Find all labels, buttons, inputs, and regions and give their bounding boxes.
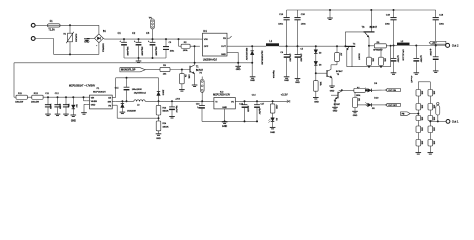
svg-text:10k: 10k <box>358 98 360 101</box>
svg-text:1N4148H: 1N4148H <box>127 111 136 113</box>
svg-text:56k/1%: 56k/1% <box>163 111 169 113</box>
svg-text:FB: FB <box>402 114 405 116</box>
svg-text:100µ/400V: 100µ/400V <box>140 47 142 57</box>
svg-text:10µH/250mA: 10µH/250mA <box>134 91 147 94</box>
svg-text:GND: GND <box>284 80 289 82</box>
svg-text:IC1: IC1 <box>203 30 207 33</box>
svg-text:10k0,5W: 10k0,5W <box>31 101 39 103</box>
svg-text:4µ7/50V: 4µ7/50V <box>419 55 421 63</box>
svg-text:SW: SW <box>108 101 111 103</box>
svg-text:ZD8V2: ZD8V2 <box>162 90 164 96</box>
svg-text:100n/100V: 100n/100V <box>132 89 143 91</box>
svg-text:+3.3V: +3.3V <box>281 92 288 96</box>
svg-text:LM2596-ADJ: LM2596-ADJ <box>203 58 218 61</box>
svg-text:4µ7/50V: 4µ7/50V <box>429 49 431 57</box>
svg-text:GND: GND <box>156 138 161 140</box>
svg-text:100k: 100k <box>421 91 423 95</box>
svg-text:33µH/5A: 33µH/5A <box>272 70 275 78</box>
svg-text:OUT-OFF: OUT-OFF <box>388 105 398 107</box>
svg-text:GND: GND <box>84 41 89 43</box>
svg-text:GND: GND <box>330 91 335 93</box>
svg-text:GND: GND <box>222 107 227 109</box>
svg-text:100k: 100k <box>356 95 360 97</box>
svg-text:100k: 100k <box>319 82 321 86</box>
svg-text:BC807: BC807 <box>357 54 359 61</box>
svg-text:MCP17030-3.3V: MCP17030-3.3V <box>213 95 230 97</box>
svg-text:4µ7/50V: 4µ7/50V <box>397 55 399 63</box>
svg-text:D3: D3 <box>319 64 321 66</box>
svg-text:F2: F2 <box>200 73 202 75</box>
svg-text:OFF: OFF <box>204 46 209 48</box>
svg-text:BC847: BC847 <box>370 26 378 29</box>
svg-text:GND: GND <box>236 69 241 71</box>
svg-text:Out 2: Out 2 <box>452 44 459 48</box>
svg-text:100k: 100k <box>187 74 189 78</box>
svg-text:100k: 100k <box>421 117 423 121</box>
svg-text:100n: 100n <box>385 24 391 26</box>
svg-text:S10K300: S10K300 <box>74 34 76 43</box>
svg-text:OUT-ON: OUT-ON <box>388 90 396 92</box>
svg-text:100k: 100k <box>433 127 435 131</box>
svg-text:10µ/16V: 10µ/16V <box>175 106 177 114</box>
svg-text:470µ/35V: 470µ/35V <box>289 54 291 63</box>
svg-text:100k: 100k <box>433 117 435 121</box>
svg-text:470µ/35V: 470µ/35V <box>300 54 302 63</box>
svg-text:1µ/50V: 1µ/50V <box>59 104 61 110</box>
svg-text:TP1: TP1 <box>149 17 152 19</box>
svg-text:BC847: BC847 <box>334 104 341 106</box>
svg-text:470R: 470R <box>275 105 277 110</box>
svg-text:100n: 100n <box>301 24 307 26</box>
svg-text:VIN: VIN <box>204 39 208 41</box>
svg-text:10µ/25V: 10µ/25V <box>247 106 249 113</box>
svg-text:GND: GND <box>222 126 227 128</box>
svg-text:GND: GND <box>295 82 300 84</box>
svg-text:4k7: 4k7 <box>340 53 342 56</box>
svg-text:GND: GND <box>270 132 275 134</box>
svg-text:100k: 100k <box>421 141 423 145</box>
svg-text:SB5100/100V: SB5100/100V <box>245 48 247 61</box>
svg-text:GND: GND <box>221 54 226 56</box>
svg-text:Out 1: Out 1 <box>452 120 459 124</box>
svg-text:D2: D2 <box>319 53 321 55</box>
svg-text:100n: 100n <box>439 24 445 26</box>
svg-text:GND: GND <box>71 120 76 122</box>
svg-text:BC847: BC847 <box>336 71 343 73</box>
svg-text:MCP16301HT - 4.7V/36V: MCP16301HT - 4.7V/36V <box>69 85 95 87</box>
svg-text:GND: GND <box>314 101 319 103</box>
svg-text:10µ/25V: 10µ/25V <box>258 108 260 115</box>
svg-text:10k/1%: 10k/1% <box>163 127 169 129</box>
svg-text:SFH6206V: SFH6206V <box>373 50 383 52</box>
svg-text:MCP16301H: MCP16301H <box>93 91 106 93</box>
svg-text:GND: GND <box>333 111 338 113</box>
svg-text:R1: R1 <box>63 34 65 36</box>
svg-text:+Uout/2: +Uout/2 <box>410 76 413 84</box>
svg-text:OUT: OUT <box>221 46 226 48</box>
svg-text:GND: GND <box>353 115 358 117</box>
svg-text:100k: 100k <box>383 58 385 62</box>
svg-text:100n: 100n <box>278 24 284 26</box>
svg-text:T1,5A: T1,5A <box>48 29 55 32</box>
svg-text:100k: 100k <box>433 141 435 145</box>
svg-text:R4: R4 <box>184 75 186 77</box>
svg-text:GND: GND <box>91 104 96 106</box>
svg-text:GND: GND <box>250 80 255 82</box>
svg-text:100k: 100k <box>433 91 435 95</box>
svg-text:100k: 100k <box>433 105 435 109</box>
svg-text:100µ/400V: 100µ/400V <box>126 47 128 57</box>
svg-text:100k: 100k <box>421 127 423 131</box>
svg-text:10k0,5W: 10k0,5W <box>15 101 23 103</box>
svg-text:VIN: VIN <box>91 97 95 99</box>
svg-text:VSHDN: VSHDN <box>91 101 98 103</box>
svg-text:100n: 100n <box>170 51 174 53</box>
svg-text:+24V: +24V <box>432 43 438 45</box>
svg-text:1µ/50V: 1µ/50V <box>49 104 51 110</box>
svg-text:100k: 100k <box>371 58 373 62</box>
svg-text:VO: VO <box>231 102 234 104</box>
svg-text:MONOFLOP: MONOFLOP <box>121 69 136 72</box>
svg-text:100k: 100k <box>421 105 423 109</box>
svg-text:100µ/400V: 100µ/400V <box>154 47 156 57</box>
svg-text:B250R5A: B250R5A <box>102 43 105 52</box>
svg-text:33µH/MSS1260: 33µH/MSS1260 <box>261 51 263 66</box>
svg-text:100n: 100n <box>67 104 69 108</box>
svg-text:DPC4.5-100: DPC4.5-100 <box>402 50 404 62</box>
